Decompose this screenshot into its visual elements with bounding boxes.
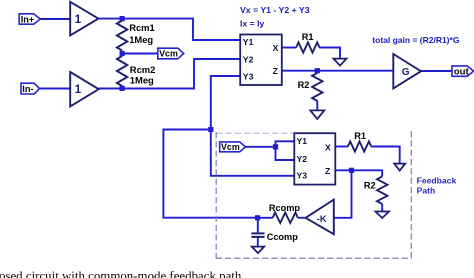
wire In+ to buffer1 (40, 18, 71, 20)
port tag Vcm (feedback) (220, 142, 246, 152)
svg-text:X: X (325, 142, 331, 152)
wire R1b to ground (371, 147, 400, 164)
svg-text:Y3: Y3 (297, 170, 308, 180)
svg-text:In-: In- (22, 84, 33, 94)
svg-text:Z: Z (273, 66, 279, 76)
wire U1 Z to G amp (282, 70, 394, 72)
svg-text:Path: Path (417, 185, 436, 195)
buffer U3 input buffer In+ (70, 2, 98, 36)
svg-text:out: out (454, 67, 470, 78)
svg-text:total gain = (R2/R1)*G: total gain = (R2/R1)*G (372, 35, 460, 45)
wire G amp to out tag (421, 70, 452, 72)
resistor R2 (feedback) (364, 177, 388, 204)
port tag In- (21, 83, 40, 94)
port tag Vcm (top) (158, 48, 184, 59)
svg-text:Feedback: Feedback (417, 176, 457, 186)
ground under R2 top (310, 110, 324, 119)
wire buffer2 out to Y2 block U1 (99, 59, 241, 89)
svg-text:G: G (402, 67, 410, 78)
wire node down to Ccomp (257, 218, 259, 233)
port tag In+ (19, 14, 40, 25)
resistor Rcomp (269, 203, 301, 223)
wire U1 Y3 to U2 Y3 feedback (211, 76, 294, 176)
svg-text:Z: Z (325, 166, 331, 176)
ground under R1 top (334, 59, 347, 66)
wire Z node down to -K input (334, 170, 352, 218)
svg-text:1: 1 (75, 14, 82, 26)
wire Ccomp to ground (257, 237, 259, 246)
resistor Rcm1 (117, 21, 155, 51)
junction feedback branch (208, 127, 213, 132)
ground under R2 feedback (375, 212, 389, 219)
svg-text:R1: R1 (354, 131, 366, 141)
wire -K out to Rcomp (298, 217, 306, 219)
svg-text:Ix = Iy: Ix = Iy (240, 19, 265, 29)
summing block U1 (240, 35, 282, 86)
resistor R1 (top) (296, 32, 319, 52)
svg-text:R1: R1 (302, 32, 314, 42)
svg-text:Y3: Y3 (243, 72, 254, 82)
annotation Feedback Path (417, 176, 457, 196)
buffer U4 input buffer In- (70, 72, 99, 107)
svg-text:Y1: Y1 (243, 37, 254, 47)
resistor R2 (top) (298, 73, 323, 101)
svg-text:Y2: Y2 (243, 54, 254, 64)
wire node to U2 Y2 (276, 147, 295, 160)
junction Z2/-K node (349, 168, 354, 173)
junction Rcm1 top (120, 16, 125, 21)
inverting amp -K (306, 200, 334, 235)
junction Vcm mid node (120, 51, 125, 56)
ground under R1 feedback (394, 164, 405, 171)
svg-text:R2: R2 (298, 80, 310, 90)
wire Z node to R2 (316, 71, 318, 73)
svg-text:osed circuit with common-mode: osed circuit with common-mode feedback p… (0, 269, 242, 278)
buffer gain stage G (393, 54, 421, 88)
resistor R1 (feedback) (348, 131, 371, 151)
wire U1 X to R1 (282, 47, 297, 49)
wire Rcomp to Ccomp node (258, 217, 273, 219)
wire U2 Z to R2b (335, 170, 382, 176)
wire buffer1 out to Y1 block U1 (98, 19, 240, 40)
svg-text:X: X (273, 43, 279, 53)
svg-text:-K: -K (317, 214, 327, 224)
wire R2b to ground (381, 204, 383, 212)
wire Vcm tag2 to U2 node (245, 146, 275, 148)
wire Vcm node to Vcm tag (122, 53, 158, 55)
svg-text:In+: In+ (21, 15, 35, 25)
svg-text:R2: R2 (364, 181, 376, 191)
feedback path dashed box (216, 129, 412, 258)
svg-text:1Meg: 1Meg (129, 34, 153, 45)
junction Vcm2 node (273, 144, 278, 149)
svg-text:1Meg: 1Meg (130, 75, 154, 86)
svg-text:Y2: Y2 (297, 154, 308, 164)
svg-text:Ccomp: Ccomp (267, 232, 299, 242)
junction Rcomp/Ccomp node (255, 215, 260, 220)
wire R1 to ground (320, 48, 341, 59)
svg-text:Rcm1: Rcm1 (129, 22, 155, 33)
junction Rcm2 bottom (120, 86, 125, 91)
wire U2 X to R1b (335, 146, 348, 148)
junction Z/R2 node (315, 68, 320, 73)
wire R2 to ground (316, 101, 318, 111)
svg-text:Y1: Y1 (297, 136, 308, 146)
svg-text:Rcomp: Rcomp (269, 203, 301, 213)
svg-text:Vx = Y1 - Y2 + Y3: Vx = Y1 - Y2 + Y3 (240, 5, 310, 15)
wire node to U2 Y1 (276, 141, 295, 147)
summing block U2 (294, 133, 335, 184)
port tag out (452, 66, 474, 78)
wire In- to buffer2 (40, 88, 71, 90)
svg-text:Vcm: Vcm (221, 142, 240, 152)
svg-text:Vcm: Vcm (159, 49, 178, 59)
resistor Rcm2 (117, 56, 155, 86)
svg-text:1: 1 (75, 84, 82, 96)
wire feedback down-left to Rcomp node (163, 130, 257, 218)
ground under Ccomp (252, 247, 264, 254)
capacitor Ccomp (251, 232, 298, 242)
